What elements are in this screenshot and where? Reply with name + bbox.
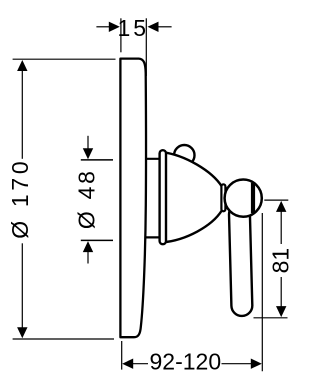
- svg-text:92-120: 92-120: [150, 348, 222, 374]
- dim 92-120 line left: [132, 363, 149, 365]
- dome top bump: [174, 145, 194, 165]
- svg-text:15: 15: [118, 15, 150, 41]
- dim dia170 down arrowhead: [17, 327, 27, 338]
- dim 81 top extension line: [264, 199, 288, 201]
- escutcheon wall plate profile: [120, 59, 146, 338]
- dim 15 right leader: [158, 26, 172, 28]
- svg-text:Ø 48: Ø 48: [73, 171, 99, 229]
- control knob ball: [225, 180, 262, 217]
- dim 81 line lower: [280, 277, 282, 308]
- dim dia48 bottom arrow stem: [87, 251, 89, 264]
- dim 15 left arrowhead: [109, 22, 120, 32]
- neck top line: [143, 158, 161, 160]
- dim dia170 up arrowhead: [17, 60, 27, 71]
- dim dia48 top arrow stem: [87, 136, 89, 150]
- svg-text:81: 81: [267, 248, 293, 274]
- dim dia170 line lower: [21, 243, 23, 329]
- dim 92-120 right arrowhead: [251, 359, 262, 369]
- dim 81 line upper: [280, 210, 282, 244]
- dim dia170 bottom extension line: [13, 338, 114, 340]
- dim 92-120 left extension line: [121, 341, 123, 370]
- svg-text:Ø 170: Ø 170: [7, 161, 33, 239]
- dim dia48 bottom tick: [81, 239, 113, 241]
- dim dia48 bottom arrowhead: [83, 241, 93, 252]
- dim 15 left extension line: [120, 18, 122, 52]
- dim 92-120 left arrowhead: [122, 359, 133, 369]
- dim 92-120 line right: [222, 363, 253, 365]
- dim dia170 line upper: [21, 69, 23, 159]
- dim 81 up arrowhead: [276, 201, 286, 212]
- dim 15 right arrowhead: [148, 22, 159, 32]
- dim 81 down arrowhead: [276, 306, 286, 317]
- valve stem ring: [221, 184, 225, 211]
- dim 81 bottom extension line: [254, 317, 288, 319]
- dim 15 right extension line: [145, 18, 147, 76]
- knob cap edge chord: [251, 183, 255, 213]
- dim 92-120 right extension line: [261, 213, 263, 371]
- dim dia48 top arrowhead: [83, 148, 93, 159]
- dim 15 left leader: [96, 26, 110, 28]
- dim dia170 top extension line: [13, 58, 116, 60]
- neck bottom line: [143, 236, 161, 238]
- dim dia48 top tick: [81, 159, 113, 161]
- cartridge dome body: [163, 152, 222, 242]
- lever handle: [229, 204, 253, 317]
- sleeve collar: [160, 150, 166, 244]
